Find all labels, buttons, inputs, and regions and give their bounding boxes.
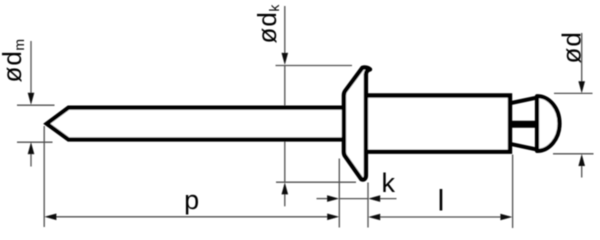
- svg-text:l: l: [438, 185, 445, 218]
- svg-text:ød: ød: [556, 32, 586, 63]
- svg-text:p: p: [184, 185, 199, 215]
- svg-text:k: k: [381, 168, 395, 198]
